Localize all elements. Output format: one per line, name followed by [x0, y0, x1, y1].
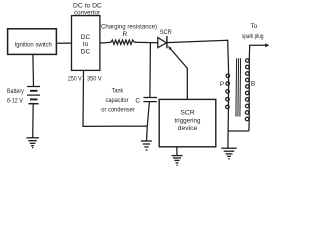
- SCR thyristor: [158, 36, 167, 48]
- label (Charging resistance) R: [99, 23, 157, 38]
- svg-text:triggering: triggering: [175, 117, 201, 124]
- svg-text:DC: DC: [81, 34, 91, 41]
- svg-text:Tank: Tank: [112, 87, 124, 94]
- wire battery to ground: [32, 104, 35, 138]
- ground (capacitor): [141, 141, 152, 150]
- SCR triggering device box U2: [159, 99, 216, 146]
- ignition coil core: [236, 58, 241, 116]
- ground (ignition coil): [221, 148, 236, 159]
- svg-text:To: To: [250, 23, 257, 30]
- label DC to DC convertor: [73, 2, 102, 16]
- wire DC-DC to resistor: [100, 41, 111, 44]
- svg-text:to: to: [83, 41, 89, 48]
- label To spark plug: [242, 23, 264, 40]
- svg-text:6-12 V: 6-12 V: [7, 97, 23, 104]
- svg-text:(Charging resistance): (Charging resistance): [99, 23, 157, 30]
- ground (battery): [27, 138, 39, 148]
- svg-text:convertor: convertor: [74, 10, 101, 17]
- wire secondary to spark plug with arrow: [249, 43, 269, 58]
- svg-text:or condenser: or condenser: [101, 106, 135, 113]
- battery BT1: [27, 87, 40, 104]
- wire resistor to SCR anode: [134, 41, 158, 44]
- resistor R (charging resistance): [111, 40, 134, 45]
- svg-text:DC to DC: DC to DC: [73, 2, 102, 9]
- wire SCR cathode to ignition coil primary: [167, 40, 229, 73]
- wire ignition switch to battery: [32, 54, 35, 86]
- wire DC-DC output down and right to capacitor ground bus: [83, 70, 147, 126]
- svg-text:SCR: SCR: [180, 110, 194, 117]
- label Tank capacitor or condenser C: [101, 87, 140, 113]
- svg-text:B: B: [251, 81, 255, 88]
- svg-text:device: device: [178, 125, 198, 132]
- svg-text:P: P: [220, 81, 224, 88]
- DC to DC convertor U1: [72, 16, 100, 71]
- svg-text:350 V: 350 V: [87, 76, 102, 83]
- ignition coil secondary winding B: [245, 59, 249, 122]
- wire triggering device to ground: [176, 147, 178, 156]
- svg-text:C: C: [135, 97, 140, 104]
- ignition switch box SW1: [8, 29, 57, 55]
- svg-text:capacitor: capacitor: [106, 97, 130, 104]
- SCR gate wire with arrow to triggering device: [168, 46, 187, 100]
- label Battery 6-12 V: [7, 88, 24, 104]
- ground (SCR triggering device): [172, 156, 183, 166]
- svg-text:250 V: 250 V: [68, 76, 82, 83]
- svg-text:SCR: SCR: [160, 29, 172, 36]
- capacitor C (tank capacitor): [143, 98, 157, 102]
- ignition coil primary winding P: [226, 73, 230, 110]
- wire ignition switch to DC-DC convertor: [56, 42, 71, 44]
- svg-text:spark plug: spark plug: [242, 33, 264, 40]
- svg-text:R: R: [122, 31, 127, 38]
- wire ignition coil bottom bus: [228, 110, 249, 148]
- wire junction to tank capacitor: [149, 43, 152, 97]
- svg-text:DC: DC: [81, 48, 91, 55]
- svg-text:Battery: Battery: [7, 88, 24, 95]
- svg-text:Ignition switch: Ignition switch: [15, 42, 53, 49]
- wire capacitor to ground: [147, 102, 150, 141]
